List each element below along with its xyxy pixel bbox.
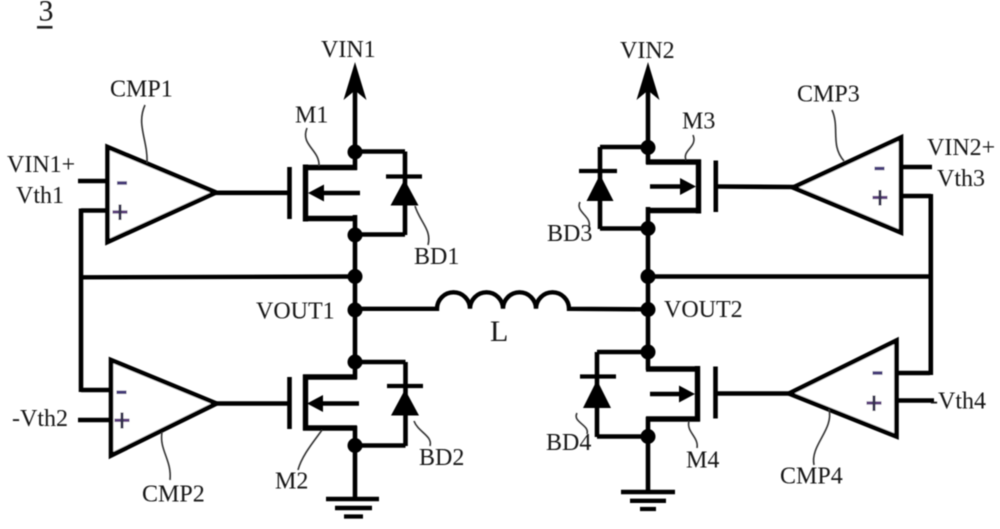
svg-text:M1: M1 bbox=[295, 103, 328, 129]
wire: right feedback vertical bbox=[928, 194, 933, 375]
leader CMP3 bbox=[832, 110, 844, 161]
transistor M1 bbox=[290, 165, 361, 222]
figure number 3 bbox=[37, 0, 54, 29]
leader BD4 bbox=[576, 413, 587, 434]
transistor M2 bbox=[290, 375, 360, 431]
svg-text:VIN1+: VIN1+ bbox=[7, 152, 75, 178]
wire: left feedback horizontal to VOUT1 bbox=[81, 274, 356, 279]
wire: main right vertical (lower section to ground) bbox=[646, 417, 651, 492]
svg-text:BD4: BD4 bbox=[546, 430, 591, 456]
wire: CMP1 output to M1 gate bbox=[213, 191, 290, 196]
wire: CMP2 output to M2 gate bbox=[213, 401, 290, 406]
VIN2 supply arrow bbox=[637, 62, 660, 164]
leader M3 bbox=[685, 135, 694, 160]
leader M1 bbox=[306, 128, 320, 166]
leader M4 bbox=[689, 421, 698, 448]
svg-text:M3: M3 bbox=[682, 109, 715, 135]
svg-text:VIN1: VIN1 bbox=[321, 37, 376, 63]
body diode BD3 bbox=[579, 147, 648, 229]
leader CMP4 bbox=[814, 409, 830, 465]
comparator CMP4 bbox=[789, 341, 934, 437]
body diode BD2 bbox=[355, 362, 423, 446]
leader BD1 bbox=[415, 206, 429, 245]
transistor M3 bbox=[646, 160, 716, 214]
svg-text:CMP2: CMP2 bbox=[142, 482, 205, 508]
VIN1 supply arrow bbox=[344, 62, 367, 170]
label VIN2+ Vth3 bbox=[927, 135, 995, 192]
wire: main left vertical (lower section to ground) bbox=[353, 426, 358, 499]
svg-text:VIN2: VIN2 bbox=[620, 38, 675, 64]
svg-text:CMP1: CMP1 bbox=[110, 77, 173, 103]
comparator CMP2 bbox=[78, 360, 217, 456]
svg-text:BD2: BD2 bbox=[419, 445, 464, 471]
svg-text:VOUT2: VOUT2 bbox=[664, 297, 743, 323]
svg-text:VIN2+: VIN2+ bbox=[927, 135, 995, 161]
body diode BD4 bbox=[580, 352, 648, 437]
svg-text:-Vth2: -Vth2 bbox=[12, 406, 68, 432]
svg-text:BD3: BD3 bbox=[547, 221, 592, 247]
wire: CMP3 output to M3 gate bbox=[716, 184, 796, 189]
svg-text:M4: M4 bbox=[686, 448, 719, 474]
leader BD2 bbox=[414, 421, 430, 446]
wire: main right vertical (mid section) bbox=[646, 207, 651, 370]
svg-text:Vth3: Vth3 bbox=[937, 166, 985, 192]
svg-text:Vth1: Vth1 bbox=[16, 183, 64, 209]
svg-text:BD1: BD1 bbox=[414, 244, 459, 270]
leader BD3 bbox=[579, 202, 589, 227]
ground (left) bbox=[326, 499, 379, 517]
svg-text:3: 3 bbox=[39, 0, 54, 28]
leader M2 bbox=[298, 430, 322, 470]
svg-text:VOUT1: VOUT1 bbox=[256, 299, 335, 325]
wire: left feedback vertical bbox=[79, 209, 84, 393]
wire: right feedback horizontal to VOUT2 bbox=[648, 274, 933, 278]
node VOUT1 dots bbox=[348, 145, 363, 454]
wire: CMP4 output to M4 gate bbox=[716, 391, 792, 396]
svg-text:M2: M2 bbox=[275, 469, 308, 495]
body diode BD1 bbox=[355, 152, 422, 236]
comparator CMP1 bbox=[78, 147, 216, 242]
leader CMP1 bbox=[142, 105, 147, 163]
comparator CMP3 bbox=[793, 138, 932, 233]
ground (right) bbox=[621, 492, 675, 509]
node VOUT2 dots bbox=[641, 140, 656, 444]
leader CMP2 bbox=[162, 432, 171, 480]
wire: main left vertical (mid section) bbox=[353, 215, 358, 379]
svg-text:CMP3: CMP3 bbox=[797, 82, 860, 108]
svg-text:L: L bbox=[490, 315, 508, 348]
svg-text:CMP4: CMP4 bbox=[780, 464, 843, 490]
label VIN1+ Vth1 bbox=[7, 152, 75, 209]
transistor M4 bbox=[646, 366, 716, 422]
inductor L bbox=[359, 292, 645, 309]
svg-text:-Vth4: -Vth4 bbox=[930, 389, 986, 415]
